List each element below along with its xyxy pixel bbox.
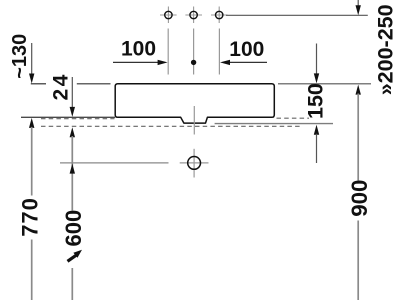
extension line y84 left seg B [77,83,111,85]
dimension 150: bottom stem [316,134,318,163]
svg-text:~130: ~130 [9,34,31,79]
extension line from H3 to 200-250 dimension [226,14,368,16]
dimension 24: down arrowhead [70,107,75,117]
dimension 100 left: line [113,61,159,63]
svg-text:900: 900 [347,180,372,217]
dimension 24: up arrowhead at hidden line [70,127,75,137]
dimension 150: up arrowhead [314,125,319,135]
hidden dashed line under counter left [41,118,115,120]
tap hole H2 circle [190,11,197,18]
dimension 200-250: down arrowhead [356,5,361,15]
dimension 150: top stem [316,44,318,75]
hidden dashed line lower spanning [41,125,302,127]
dimension ~130: stem [31,43,33,75]
dimension 600: stem lower [71,268,73,300]
dimension 200-250: up arrowhead at basin top [356,85,361,95]
svg-text:100: 100 [229,38,264,61]
outlet crosshair vertical [193,149,195,178]
outlet crosshair horizontal [180,162,209,164]
dimension 900: stem lower [357,221,359,300]
dimension ~130: down arrowhead [29,74,34,84]
counter line right solid [215,123,333,125]
shared center dot terminator [191,60,196,65]
svg-text:600: 600 [61,210,86,247]
dimension 900: stem upper [357,94,359,181]
dimension 600: up arrowhead at outlet centerline [70,164,75,174]
extension line y84 left seg A [31,83,46,85]
tap hole H3 circle [216,11,223,18]
tap hole centerlines extended down [168,29,219,75]
svg-text:150: 150 [303,83,327,119]
svg-text:770: 770 [17,197,42,237]
svg-text:»200-250: »200-250 [374,4,398,95]
dimension 770: stem lower [31,240,33,300]
dimension 24: leader stem [71,77,73,108]
dimension 600: NE arrow symbol [68,255,77,261]
tap hole centerline crosshair vertical H1 [160,7,228,24]
counter top line left of basin [21,116,115,118]
extension line y84 right of basin [278,83,371,85]
dimension 150: down arrowhead [314,73,319,83]
dimension 100 left: arrowhead [158,60,168,65]
dimension 200-250: top stem [357,0,359,7]
washbasin body outline [115,84,274,123]
dimension 770: stem upper [31,127,33,196]
dimension 100 right: line [229,61,267,63]
hidden dashed line right of basin [277,117,310,119]
dimension 770: up arrowhead at counter line [29,118,34,128]
drain vertical centerline [193,106,195,135]
outlet centerline horizontal long [60,162,169,164]
waste outlet circle [188,157,201,170]
tap hole H1 circle [165,11,172,18]
dimension 100 right: arrowhead [220,60,230,65]
svg-text:24: 24 [50,72,73,100]
svg-text:100: 100 [121,37,156,60]
dimension 600: stem upper [71,136,73,211]
